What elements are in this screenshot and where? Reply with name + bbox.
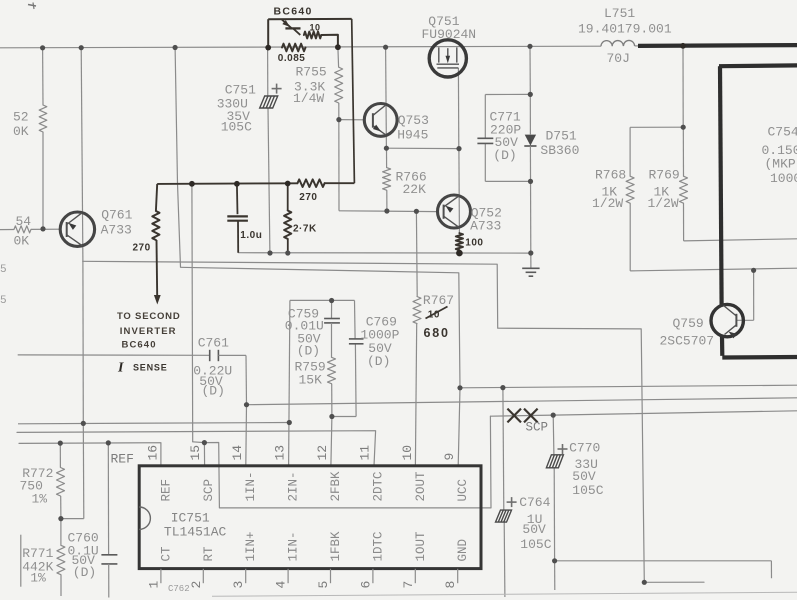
svg-text:FU9024N: FU9024N: [422, 27, 477, 42]
svg-text:54: 54: [16, 214, 32, 229]
svg-text:(D): (D): [202, 384, 225, 399]
svg-text:12: 12: [315, 445, 330, 461]
svg-text:(D): (D): [493, 148, 516, 163]
svg-text:2·7K: 2·7K: [293, 224, 317, 235]
svg-text:(D): (D): [297, 344, 320, 359]
svg-text:5: 5: [0, 264, 7, 276]
svg-text:2: 2: [189, 581, 204, 589]
svg-text:105C: 105C: [572, 483, 603, 498]
svg-text:105C: 105C: [520, 537, 551, 552]
svg-text:680: 680: [424, 326, 450, 340]
svg-text:A733: A733: [470, 219, 501, 234]
svg-text:1%: 1%: [30, 570, 46, 585]
svg-text:TO SECOND: TO SECOND: [117, 311, 181, 322]
svg-text:1/2W: 1/2W: [648, 196, 679, 211]
svg-text:1FBK: 1FBK: [329, 531, 343, 562]
svg-text:UCC: UCC: [456, 479, 470, 502]
svg-text:52: 52: [13, 110, 29, 125]
svg-text:R768: R768: [595, 168, 626, 183]
svg-text:50V: 50V: [572, 469, 596, 484]
svg-text:Q761: Q761: [101, 208, 132, 223]
svg-text:6: 6: [358, 581, 373, 589]
svg-text:D751: D751: [546, 129, 577, 144]
svg-text:SCP: SCP: [202, 479, 216, 502]
svg-text:100: 100: [465, 237, 483, 248]
svg-text:L751: L751: [604, 6, 635, 21]
svg-text:REF: REF: [159, 479, 173, 502]
svg-text:(D): (D): [73, 565, 96, 580]
svg-text:19.40179.001: 19.40179.001: [578, 22, 672, 37]
svg-text:15K: 15K: [299, 373, 323, 388]
svg-text:3: 3: [231, 581, 246, 589]
svg-text:1000: 1000: [770, 171, 797, 186]
svg-text:RT: RT: [202, 546, 216, 562]
svg-text:A733: A733: [101, 223, 132, 238]
svg-text:INVERTER: INVERTER: [120, 326, 177, 337]
svg-text:1.0u: 1.0u: [240, 230, 262, 241]
svg-text:Q753: Q753: [398, 113, 429, 128]
svg-text:1IN-: 1IN-: [287, 531, 301, 561]
svg-text:8: 8: [443, 581, 458, 589]
svg-text:16: 16: [145, 445, 160, 461]
svg-text:105C: 105C: [221, 120, 252, 135]
svg-text:Q759: Q759: [673, 316, 704, 331]
svg-text:1: 1: [146, 581, 161, 589]
svg-text:270: 270: [299, 192, 317, 203]
svg-text:70J: 70J: [607, 51, 630, 66]
svg-text:1IN+: 1IN+: [244, 531, 258, 561]
svg-text:H945: H945: [397, 127, 428, 142]
svg-text:4: 4: [274, 581, 289, 589]
svg-text:BC640: BC640: [122, 340, 157, 351]
svg-text:C751: C751: [225, 82, 256, 97]
svg-text:22K: 22K: [403, 182, 427, 197]
svg-text:1/4W: 1/4W: [293, 91, 324, 106]
svg-text:11: 11: [357, 445, 372, 461]
svg-text:1DTC: 1DTC: [371, 531, 385, 561]
svg-text:GND: GND: [456, 539, 470, 562]
svg-text:IC751: IC751: [171, 511, 210, 526]
svg-text:C754: C754: [768, 124, 797, 139]
svg-text:2FBK: 2FBK: [329, 471, 343, 502]
svg-text:2DTC: 2DTC: [371, 471, 385, 501]
svg-text:SENSE: SENSE: [133, 363, 168, 373]
svg-text:C770: C770: [569, 441, 600, 456]
svg-text:0K: 0K: [13, 124, 29, 139]
svg-text:2SC5707: 2SC5707: [660, 334, 715, 349]
svg-text:TL1451AC: TL1451AC: [164, 525, 227, 540]
svg-text:C764: C764: [519, 495, 550, 510]
svg-text:14: 14: [230, 445, 245, 461]
svg-text:2IN-: 2IN-: [287, 471, 301, 501]
svg-text:1OUT: 1OUT: [414, 531, 428, 562]
svg-text:SCP: SCP: [526, 421, 549, 435]
svg-text:R769: R769: [649, 168, 680, 183]
svg-text:10: 10: [310, 23, 321, 33]
svg-text:1IN-: 1IN-: [244, 471, 258, 501]
svg-text:BC640: BC640: [274, 5, 313, 17]
svg-text:10: 10: [428, 310, 440, 321]
svg-text:1/2W: 1/2W: [592, 196, 623, 211]
svg-text:270: 270: [133, 243, 151, 254]
svg-text:R755: R755: [296, 65, 327, 80]
svg-text:9: 9: [442, 453, 457, 461]
svg-text:0K: 0K: [14, 233, 30, 248]
svg-text:0.085: 0.085: [278, 53, 306, 64]
svg-text:7: 7: [401, 581, 416, 589]
svg-text:13: 13: [273, 445, 288, 461]
svg-text:SB360: SB360: [540, 143, 579, 158]
svg-text:R767: R767: [423, 293, 454, 308]
svg-text:(MKP: (MKP: [765, 156, 796, 171]
svg-text:I: I: [117, 361, 124, 376]
svg-text:5: 5: [0, 295, 7, 307]
svg-text:C762: C762: [168, 584, 190, 594]
svg-text:2OUT: 2OUT: [414, 471, 428, 502]
svg-text:CT: CT: [159, 546, 173, 562]
svg-text:5: 5: [316, 581, 331, 589]
svg-text:1%: 1%: [32, 492, 48, 507]
svg-text:REF: REF: [111, 452, 134, 467]
svg-text:C761: C761: [198, 336, 229, 351]
svg-text:50V: 50V: [522, 522, 546, 537]
svg-text:(D): (D): [367, 354, 390, 369]
svg-text:10: 10: [400, 445, 415, 461]
svg-text:15: 15: [188, 445, 203, 461]
